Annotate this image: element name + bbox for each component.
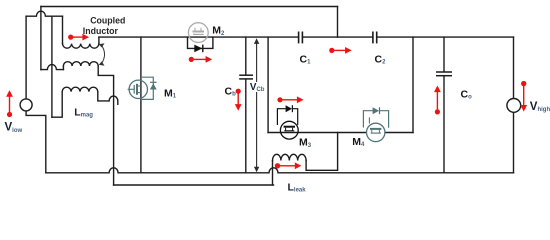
wire M3 drain branch from top node (267, 37, 269, 132)
wire L_leak right lead and riser to M3-M4 row (306, 133, 338, 171)
op M2 body diode (194, 45, 203, 53)
label white backing for V_Cb (249, 82, 265, 92)
current arrow C1-C2 (red) (329, 47, 352, 54)
svg-text:Coupled: Coupled (90, 16, 125, 26)
wire box right edge vertical (412, 37, 414, 132)
capacitor C2 (373, 32, 377, 44)
svg-text:Lleak: Lleak (288, 182, 307, 194)
current arrow Cb (red, down) (235, 89, 242, 111)
diode of M4 (373, 107, 380, 114)
wire V_low top node horizontal (hump over x40.9) (26, 11, 62, 16)
svg-text:Vlow: Vlow (5, 122, 23, 134)
transistor M4 circle (367, 123, 385, 141)
wire M4 to right box edge (385, 132, 413, 134)
wire winding3 right lead (hump over x113.6) (98, 92, 118, 105)
svg-text:C1: C1 (300, 53, 312, 65)
transistor M1 glyph (128, 84, 141, 95)
wire main top node y37 (99, 36, 299, 38)
inductor L_mag winding 3 (62, 87, 98, 91)
current arrow M3 (red) (277, 96, 303, 103)
capacitor Co plates (436, 72, 452, 76)
transistor M4 body diode loop (363, 107, 388, 128)
svg-text:M3: M3 (299, 137, 312, 149)
wire winding2 left leg (62, 66, 64, 70)
source V_low (20, 99, 32, 111)
voltage arrow V_low (red, up) (6, 90, 13, 117)
wire x51.9 vertical from top node (51, 16, 53, 117)
voltage arrow Co (red, up) (434, 86, 441, 115)
current arrow winding1 (red) (68, 34, 89, 41)
wire top node right of C2 to V_high corner (377, 36, 514, 38)
svg-text:M4: M4 (352, 136, 365, 148)
wire U bottom joining winding3 left leg (52, 92, 62, 118)
wire winding2 right lead down to lower rail (98, 66, 113, 185)
svg-text:Cb: Cb (225, 86, 237, 98)
source V_high (507, 99, 521, 113)
wire M3-M4 row (268, 132, 366, 134)
voltage arrow V_high (red, down) (520, 81, 527, 112)
voltage arrow V_Cb (double headed) (256, 43, 258, 168)
svg-text:Inductor: Inductor (83, 26, 119, 36)
wire from top-rail leg to winding2 left end (hump over x51.9) (41, 65, 64, 70)
coupled inductor winding 2 (63, 62, 98, 66)
diode of M3 (286, 105, 292, 112)
wire top rail left leg (40, 7, 42, 70)
transistor M3 body diode loop (277, 105, 297, 125)
wire lower rail (114, 184, 274, 186)
capacitor Cb plates (239, 75, 253, 79)
transistor M2 glyph (193, 28, 205, 35)
wire winding1 left leg (62, 16, 64, 43)
wire Cb bottom lead (245, 79, 247, 173)
wire top node between C1 and C2 (302, 36, 373, 38)
transistor M3 circle (280, 121, 298, 139)
wire main bottom rail (humps over x113.6 and x273.5) (46, 168, 514, 173)
wire L_leak left leg riser (272, 161, 274, 186)
coupled inductor winding 1 (63, 44, 99, 49)
transistor M4 glyph (369, 117, 381, 133)
wire M1 branch vertical (140, 37, 142, 173)
svg-text:M2: M2 (212, 25, 225, 37)
wire top rail right drop (337, 7, 339, 38)
wire V_high top lead (513, 37, 515, 99)
wire top rail (41, 6, 338, 8)
diode of M1 (150, 82, 157, 89)
transistor M1 circle (129, 80, 147, 98)
transistor M3 glyph (284, 127, 295, 131)
svg-text:Vhigh: Vhigh (530, 101, 550, 113)
capacitor C1 (299, 32, 303, 44)
wire V_low top riser (25, 16, 27, 99)
coupling arrow between winding1 and winding2 (102, 45, 105, 64)
svg-text:C2: C2 (375, 53, 387, 65)
inductor L_leak winding (273, 154, 307, 160)
svg-text:Lmag: Lmag (74, 107, 93, 119)
transistor M1 body diode loop (141, 77, 153, 99)
wire winding1 right leg (98, 37, 100, 44)
wire V_high bottom lead (513, 112, 515, 173)
current arrow M2 (red) (189, 56, 213, 63)
current arrow L_leak (red) (275, 162, 302, 169)
wire M2 diode jog (188, 37, 213, 48)
wire Co bottom lead (443, 76, 445, 173)
svg-text:M1: M1 (164, 88, 177, 100)
svg-text:Co: Co (461, 89, 473, 101)
wire Cb top lead (245, 37, 247, 75)
transistor M2 circle (188, 23, 208, 43)
wire Co top lead (443, 37, 445, 72)
wire V_low bottom lead to main rail (26, 111, 46, 173)
